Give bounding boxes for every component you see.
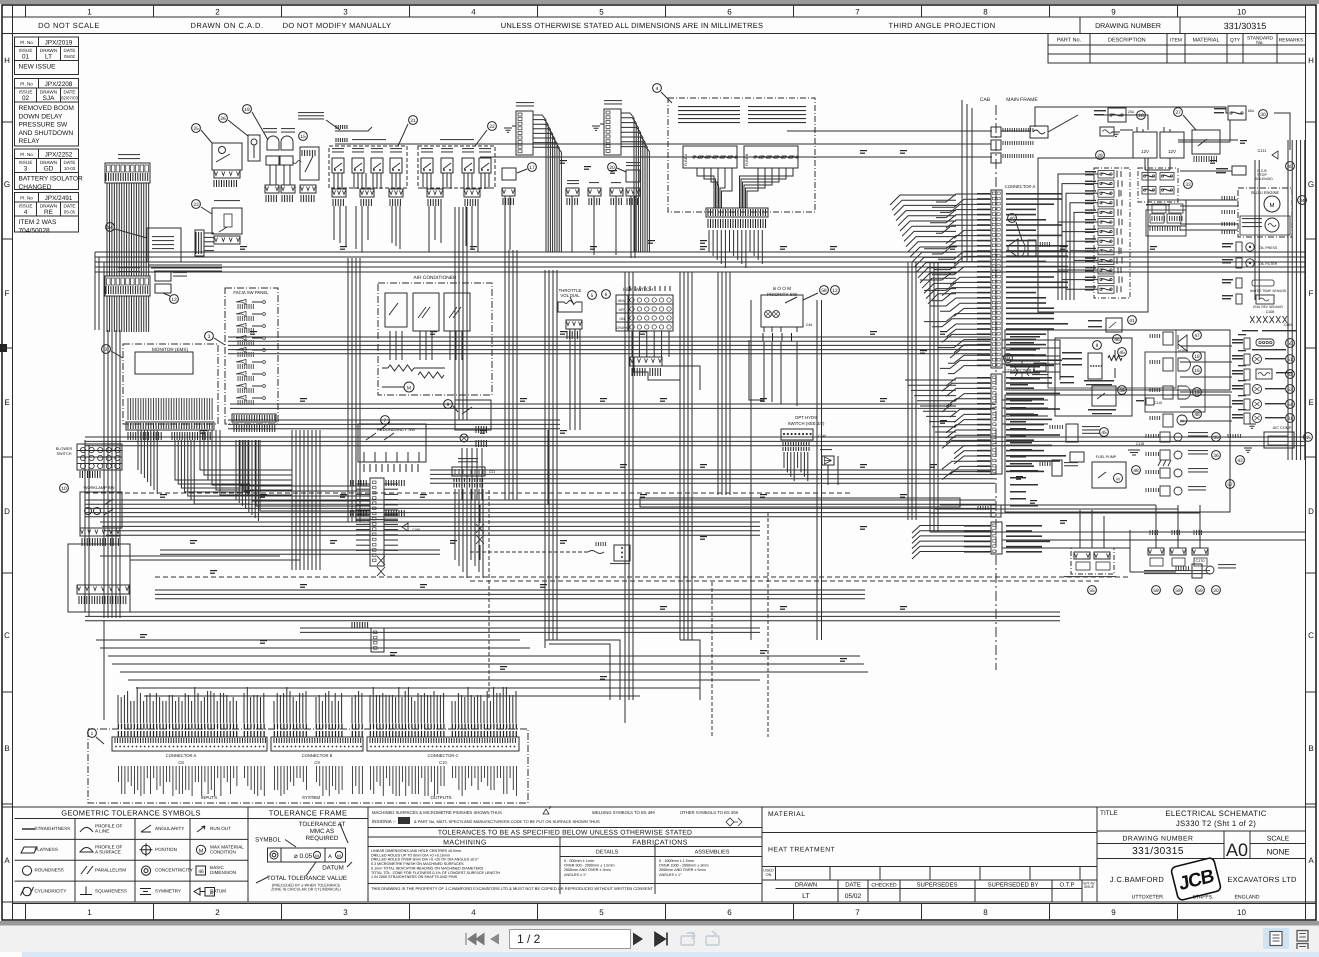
solenoid feeder wires <box>940 504 1156 506</box>
left wiring maze <box>104 261 214 263</box>
svg-text:REMOVED BOOM: REMOVED BOOM <box>19 105 74 112</box>
svg-text:48: 48 <box>1133 468 1139 474</box>
misc center-low wires <box>544 640 546 648</box>
left maze elbows <box>200 430 292 470</box>
svg-text:47: 47 <box>1194 333 1200 339</box>
right edge vertical runs <box>1287 140 1289 460</box>
data header A ground <box>592 126 600 130</box>
svg-text:8: 8 <box>983 908 988 917</box>
svg-text:10: 10 <box>1237 908 1246 917</box>
glow plug label top <box>1242 330 1258 331</box>
svg-text:55: 55 <box>1089 588 1095 594</box>
lock lever switch S15 <box>299 132 308 141</box>
svg-text:SOLENOID: SOLENOID <box>1255 177 1273 181</box>
twisted pair glyph 2 <box>377 556 385 576</box>
wire bundle V8 <box>929 262 931 532</box>
connector C7 <box>991 153 1001 163</box>
svg-text:40: 40 <box>1009 216 1015 222</box>
svg-text:OUTPUTS: OUTPUTS <box>431 795 452 800</box>
data header B fan <box>533 115 546 252</box>
sensor oil press <box>1222 243 1233 244</box>
svg-text:SWITCH: SWITCH <box>57 452 72 456</box>
svg-text:MACHINED SURFACES & MICROMETRE: MACHINED SURFACES & MICROMETRE FINISHES … <box>372 810 502 815</box>
cab mainframe dash line <box>995 105 997 670</box>
svg-text:CONNECTOR A: CONNECTOR A <box>166 753 197 758</box>
connector block outline <box>88 729 528 803</box>
geometric tolerance symbols table <box>15 818 249 820</box>
wire B+B stub 1 <box>335 127 372 131</box>
svg-text:POSITION: POSITION <box>155 847 177 852</box>
key switch connector C33 <box>630 357 662 366</box>
svg-text:G: G <box>4 180 10 189</box>
connector C9 <box>991 140 1001 150</box>
svg-text:SCALE: SCALE <box>1267 836 1290 843</box>
label text under strips <box>118 766 120 782</box>
flasher relay item41 <box>1106 318 1122 332</box>
fuse panel item4 box <box>668 98 815 212</box>
aux1 fuse <box>589 182 599 183</box>
svg-text:43: 43 <box>1237 458 1243 464</box>
svg-text:8: 8 <box>983 8 988 17</box>
horn speaker item40 <box>1008 214 1017 223</box>
svg-text:05-05: 05-05 <box>64 210 76 215</box>
lamp labels <box>263 128 277 129</box>
fuse stack left wires <box>1058 174 1098 300</box>
svg-text:4: 4 <box>656 86 659 92</box>
svg-text:17: 17 <box>529 165 535 171</box>
bank1 connectors <box>332 189 346 197</box>
svg-text:9: 9 <box>1111 8 1116 17</box>
C187 connector <box>1040 462 1050 466</box>
svg-text:F: F <box>5 289 10 298</box>
ac wires down <box>389 331 391 360</box>
svg-text:9: 9 <box>1111 908 1116 917</box>
bank2 wires <box>422 173 424 189</box>
wiper motor high <box>1146 470 1159 474</box>
svg-text:12: 12 <box>832 288 838 294</box>
fusible link <box>1030 126 1048 138</box>
left maze verticals 1 <box>291 430 293 570</box>
fusebox FB1 wires <box>106 183 108 276</box>
revision table <box>15 37 79 47</box>
svg-text:DRAWING NUMBER: DRAWING NUMBER <box>1123 836 1194 843</box>
svg-text:45: 45 <box>1119 350 1125 356</box>
svg-text:Pl. No: Pl. No <box>20 40 33 45</box>
svg-text:OTHER SYMBOLS TO BS 308: OTHER SYMBOLS TO BS 308 <box>680 810 738 815</box>
svg-text:ENG REV SENSOR: ENG REV SENSOR <box>1253 305 1283 309</box>
svg-text:M: M <box>199 848 204 854</box>
left low boxes wires <box>84 440 86 612</box>
svg-text:M: M <box>337 853 341 858</box>
svg-text:59: 59 <box>1175 588 1181 594</box>
svg-text:0 - 1000mm ± 1.5mm: 0 - 1000mm ± 1.5mm <box>659 859 694 863</box>
svg-text:29: 29 <box>1097 153 1103 159</box>
svg-text:PART No.: PART No. <box>1057 38 1082 44</box>
fuel pump box <box>1070 452 1084 462</box>
nav next page button <box>633 933 643 946</box>
svg-text:DRAWN: DRAWN <box>40 89 57 94</box>
svg-text:SYMMETRY: SYMMETRY <box>155 889 181 894</box>
svg-text:DRAWING NUMBER: DRAWING NUMBER <box>1095 23 1161 30</box>
svg-text:DATUM: DATUM <box>322 865 344 872</box>
svg-text:7: 7 <box>855 8 860 17</box>
svg-text:E: E <box>4 398 9 407</box>
svg-text:48: 48 <box>1194 412 1200 418</box>
opt hyds wires <box>783 452 785 468</box>
C180 diode label <box>370 519 384 520</box>
fusebox FB2 wires <box>106 296 108 332</box>
engine left hatches <box>1222 196 1235 200</box>
svg-text:C9: C9 <box>314 760 320 765</box>
svg-text:BATTERY ISOLATOR: BATTERY ISOLATOR <box>19 176 83 183</box>
svg-text:22: 22 <box>489 124 495 130</box>
isuzu engine box <box>1238 188 1292 237</box>
ECU connector A right labels <box>1006 193 1062 195</box>
svg-text:C140: C140 <box>818 434 826 438</box>
svg-text:6: 6 <box>727 8 732 17</box>
svg-text:INPUTS: INPUTS <box>201 795 217 800</box>
svg-text:46: 46 <box>1305 435 1311 441</box>
defrost motor D2 <box>1150 388 1160 392</box>
fusible link 2 <box>1100 127 1114 136</box>
svg-text:RE: RE <box>44 209 53 216</box>
C182 connector <box>370 478 384 566</box>
svg-text:C8: C8 <box>178 760 184 765</box>
svg-text:ENGLAND: ENGLAND <box>1234 895 1259 901</box>
dashed vertical to strip B1 <box>711 582 713 737</box>
monitor pin labels <box>128 398 212 420</box>
svg-text:DRAWN: DRAWN <box>795 882 817 889</box>
svg-text:DRAWN: DRAWN <box>40 203 57 208</box>
svg-text:DATE: DATE <box>64 160 76 165</box>
JCB logo <box>1171 857 1222 901</box>
svg-text:1 IN 2000 STRAIGHTNESS ON SHAF: 1 IN 2000 STRAIGHTNESS ON SHAFTS AND PIN… <box>371 875 458 879</box>
svg-text:DATE: DATE <box>64 48 76 53</box>
sensor ground <box>1248 424 1256 428</box>
svg-text:M: M <box>407 386 411 392</box>
svg-text:25: 25 <box>193 126 199 132</box>
facia relay <box>626 170 640 182</box>
parts list table <box>1048 34 1306 64</box>
svg-text:6: 6 <box>605 292 608 298</box>
ecb stop solenoid <box>1216 168 1228 169</box>
svg-text:C10: C10 <box>439 760 447 765</box>
nav last page button <box>655 933 667 946</box>
data header A fan <box>621 113 634 252</box>
svg-text:GEOMETRIC TOLERANCE SYMBOLS: GEOMETRIC TOLERANCE SYMBOLS <box>61 809 201 818</box>
wire single x751 <box>750 300 752 640</box>
redundancy switch <box>358 424 426 462</box>
buzzer <box>1150 416 1160 420</box>
svg-text:A0: A0 <box>1226 840 1248 860</box>
svg-text:TOLERANCE FRAME: TOLERANCE FRAME <box>269 809 348 818</box>
svg-text:2: 2 <box>105 347 108 353</box>
svg-text:2: 2 <box>215 908 220 917</box>
svg-text:B O O M: B O O M <box>773 286 791 291</box>
svg-text:SUPERSEDED BY: SUPERSEDED BY <box>987 882 1038 889</box>
svg-text:FUSE B: FUSE B <box>745 153 749 166</box>
fold mark left <box>0 344 7 352</box>
svg-text:CONNECTOR B: CONNECTOR B <box>302 753 333 758</box>
dashed vertical to strip B2 <box>767 512 769 737</box>
svg-text:Pl. No: Pl. No <box>20 152 33 157</box>
svg-text:DOWN DELAY: DOWN DELAY <box>19 113 63 120</box>
data header B <box>516 111 533 155</box>
svg-text:1: 1 <box>87 908 92 917</box>
svg-text:F: F <box>1309 289 1314 298</box>
lamp LP1 <box>267 136 279 150</box>
svg-text:1: 1 <box>91 731 94 737</box>
svg-text:SQUARENESS: SQUARENESS <box>95 889 127 894</box>
relay K25 leader <box>192 124 201 133</box>
connector C4 <box>991 522 1002 554</box>
svg-text:FLATNESS: FLATNESS <box>35 847 58 852</box>
svg-text:FUEL PUMP: FUEL PUMP <box>1096 455 1117 459</box>
radio connector <box>195 230 204 256</box>
svg-text:DATE: DATE <box>64 89 76 94</box>
overload pressure sw <box>1050 425 1063 429</box>
svg-text:JPX/2491: JPX/2491 <box>45 195 73 202</box>
svg-text:LT: LT <box>802 893 810 900</box>
washer pump <box>1146 488 1159 492</box>
svg-text:C11: C11 <box>489 470 495 474</box>
svg-text:G: G <box>1308 180 1314 189</box>
svg-text:HEAT TREATMENT: HEAT TREATMENT <box>768 847 835 854</box>
main bus B2b <box>230 403 995 405</box>
engine control relay <box>1092 386 1116 406</box>
svg-text:REQUIRED: REQUIRED <box>306 835 339 842</box>
connector C6 <box>991 127 1001 137</box>
svg-text:OIL PRESS: OIL PRESS <box>1259 246 1278 250</box>
svg-text:7: 7 <box>855 908 860 917</box>
svg-text:J.C.BAMFORD: J.C.BAMFORD <box>1110 875 1164 884</box>
wire top feed 80A <box>1035 107 1226 127</box>
svg-text:19: 19 <box>244 107 250 113</box>
wire long top 1 <box>787 130 992 132</box>
svg-text:MACHINING: MACHINING <box>443 840 487 847</box>
svg-text:MMC AS: MMC AS <box>310 828 334 835</box>
svg-text:Pl. No: Pl. No <box>20 196 33 201</box>
main bus B2 <box>228 336 990 338</box>
svg-text:MAIN FRAME: MAIN FRAME <box>1006 97 1038 103</box>
svg-text:B: B <box>1308 744 1313 753</box>
svg-text:12V: 12V <box>1141 149 1149 154</box>
svg-text:TOLERANCES TO BE AS SPECIFIED: TOLERANCES TO BE AS SPECIFIED BELOW UNLE… <box>438 830 692 837</box>
svg-text:FACIA SW PANEL: FACIA SW PANEL <box>233 290 269 295</box>
svg-text:C110: C110 <box>1154 401 1162 405</box>
heater relay item9 wires <box>461 448 463 500</box>
svg-text:WORKLAMP SW: WORKLAMP SW <box>84 485 115 490</box>
connector strip B <box>271 737 363 751</box>
svg-text:TOTAL TOLERANCE VALUE: TOTAL TOLERANCE VALUE <box>267 875 347 882</box>
svg-text:& PART No, MAT'L SPEC'N AND MA: & PART No, MAT'L SPEC'N AND MANUFACTURER… <box>414 819 600 824</box>
radio relay item23 <box>192 200 201 209</box>
page layout button active <box>1263 928 1289 949</box>
aux2 fuse <box>611 182 621 183</box>
svg-text:MATERIAL: MATERIAL <box>768 811 806 818</box>
svg-text:⌀ 0.05: ⌀ 0.05 <box>294 853 313 860</box>
grid column ticks bottom <box>25 904 27 921</box>
relay K26 <box>248 135 260 161</box>
svg-text:5: 5 <box>599 8 604 17</box>
worklamp switch <box>60 484 69 493</box>
wire B+B stub 2 <box>335 143 372 145</box>
svg-text:7: 7 <box>384 418 387 424</box>
defrost motor D1 <box>1150 360 1160 364</box>
main bus B6 <box>155 589 865 591</box>
svg-text:A: A <box>328 854 332 860</box>
svg-text:16: 16 <box>1194 368 1200 374</box>
svg-text:3: 3 <box>343 908 348 917</box>
svg-text:O.T.P: O.T.P <box>1059 882 1074 889</box>
C181 connector <box>371 628 384 652</box>
dropdown caret <box>611 937 620 942</box>
bank2 connectors <box>427 189 443 197</box>
svg-text:DATE: DATE <box>64 203 76 208</box>
svg-text:SYMBOL: SYMBOL <box>255 837 281 844</box>
monitor facia wires down <box>137 430 139 470</box>
right lower wires <box>1002 539 1305 541</box>
svg-text:80A: 80A <box>1248 109 1255 113</box>
main bus B5 dashed <box>155 576 1130 578</box>
fusebox FB1 <box>105 163 150 183</box>
svg-text:ROUNDNESS: ROUNDNESS <box>35 868 64 873</box>
fusebox FB2 label <box>118 267 140 268</box>
svg-text:ITEM 2 WAS: ITEM 2 WAS <box>19 219 57 226</box>
svg-text:30: 30 <box>1260 112 1266 118</box>
can link connector <box>614 545 630 561</box>
twisted pair glyph 1 <box>476 524 484 544</box>
C40 C41 boxes <box>155 272 171 281</box>
svg-text:10: 10 <box>61 486 67 492</box>
svg-text:15: 15 <box>300 134 306 140</box>
svg-text:C118: C118 <box>1136 442 1144 446</box>
nav first page button <box>466 933 484 945</box>
svg-text:3: 3 <box>24 166 28 173</box>
svg-text:JPX/2208: JPX/2208 <box>45 81 73 88</box>
svg-text:DRAWN: DRAWN <box>40 160 57 165</box>
svg-text:STRAIGHTNESS: STRAIGHTNESS <box>35 826 71 831</box>
left maze ladder 1 <box>228 419 560 421</box>
top right wire runs <box>1001 130 1030 132</box>
svg-text:SYSTEM: SYSTEM <box>302 795 320 800</box>
svg-text:DATE: DATE <box>845 882 861 889</box>
svg-text:A: A <box>210 891 214 897</box>
svg-text:HORN: HORN <box>1178 349 1189 353</box>
svg-text:01: 01 <box>22 54 30 61</box>
svg-text:AIR CONDITIONER: AIR CONDITIONER <box>414 275 457 281</box>
svg-text:12V: 12V <box>1168 149 1176 154</box>
main bus B7 <box>85 611 1060 613</box>
svg-text:D: D <box>1308 507 1314 516</box>
svg-text:A: A <box>4 856 10 865</box>
svg-text:RUN OUT: RUN OUT <box>210 826 231 831</box>
horn column box <box>1145 352 1205 412</box>
wire elbows center <box>545 640 620 700</box>
svg-text:FUSE A: FUSE A <box>684 153 688 166</box>
svg-text:57: 57 <box>1227 482 1233 488</box>
svg-text:TOLERANCE AT: TOLERANCE AT <box>299 821 346 828</box>
aux solenoid 2 <box>1172 530 1180 535</box>
svg-text:JPX/2252: JPX/2252 <box>45 152 73 159</box>
wire bundle V1b <box>347 258 349 522</box>
svg-text:THIS DRAWING IS THE PROPERTY O: THIS DRAWING IS THE PROPERTY OF J.C.BAMF… <box>371 886 654 891</box>
circled 21 <box>409 116 418 125</box>
svg-text:CRANK: CRANK <box>616 326 629 330</box>
fuse stack <box>1094 168 1130 298</box>
alarm wires <box>504 196 506 250</box>
wires descend to strips <box>117 695 119 723</box>
svg-text:ISSUE: ISSUE <box>19 203 33 208</box>
ECU fan out left <box>890 195 956 205</box>
left maze verticals 2 <box>454 207 456 420</box>
ECU connector A fan <box>936 194 991 202</box>
worklamp connector <box>80 528 120 536</box>
svg-text:C111: C111 <box>1258 148 1268 153</box>
svg-text:H: H <box>1308 56 1314 65</box>
ac resistors <box>388 365 414 371</box>
svg-text:3: 3 <box>208 334 211 340</box>
sensor oil filter <box>1222 259 1233 260</box>
starter safety relays <box>1148 200 1186 226</box>
svg-text:SJA: SJA <box>43 95 55 102</box>
svg-text:2: 2 <box>215 8 220 17</box>
svg-text:ISSUE: ISSUE <box>19 48 33 53</box>
svg-text:M: M <box>1116 477 1119 482</box>
svg-text:ANGLES ± 1°: ANGLES ± 1° <box>564 873 587 877</box>
pdf viewer toolbar <box>0 925 1319 953</box>
svg-text:FABRICATIONS: FABRICATIONS <box>632 840 688 847</box>
wires into C6 C9 C7 <box>962 130 991 132</box>
svg-text:M: M <box>1270 202 1275 209</box>
svg-text:18: 18 <box>1194 354 1200 360</box>
wire bundle V2 <box>624 272 626 700</box>
history forward button greyed <box>706 931 719 945</box>
svg-text:ELECTRICAL SCHEMATIC: ELECTRICAL SCHEMATIC <box>1165 809 1266 818</box>
gts symbols <box>21 825 215 896</box>
svg-text:CONDITION: CONDITION <box>210 849 236 854</box>
svg-text:ISSUE: ISSUE <box>19 89 33 94</box>
svg-text:C: C <box>4 631 10 640</box>
wire bundle V4 <box>717 272 719 495</box>
svg-text:C188: C188 <box>412 528 420 532</box>
facia connector C15 <box>232 414 276 422</box>
bank1 wires <box>333 173 335 189</box>
svg-text:21: 21 <box>410 118 416 124</box>
svg-text:A SURFACE: A SURFACE <box>95 849 121 854</box>
sensor rows right mid <box>1232 339 1243 341</box>
svg-text:MATERIAL: MATERIAL <box>1192 38 1219 44</box>
fusebox FB2 <box>105 276 150 296</box>
nav prev page button <box>490 934 499 945</box>
svg-text:EXCAVATORS LTD: EXCAVATORS LTD <box>1227 875 1297 884</box>
svg-text:DO NOT MODIFY MANUALLY: DO NOT MODIFY MANUALLY <box>283 21 392 30</box>
svg-text:LT: LT <box>45 54 52 61</box>
wiper motor lower <box>1146 452 1159 456</box>
bank wires descend <box>333 206 335 240</box>
svg-text:8: 8 <box>1096 343 1099 349</box>
svg-text:DO NOT SCALE: DO NOT SCALE <box>38 21 100 30</box>
svg-text:704/50028: 704/50028 <box>19 227 51 234</box>
wire bundle V7 <box>907 262 909 520</box>
horn H1 <box>1150 334 1160 338</box>
svg-text:DIMENSION: DIMENSION <box>210 870 236 875</box>
C48 connector row <box>68 544 130 612</box>
svg-text:ON: ON <box>766 873 772 877</box>
svg-text:DRAWN: DRAWN <box>40 48 57 53</box>
key switch wires <box>631 331 633 357</box>
svg-text:CONNECTOR C: CONNECTOR C <box>427 753 458 758</box>
